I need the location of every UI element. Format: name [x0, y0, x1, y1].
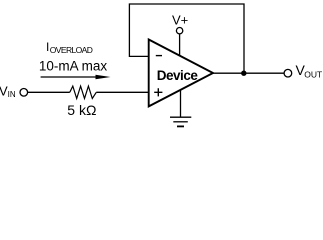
svg-text:OVERLOAD: OVERLOAD — [50, 45, 93, 55]
svg-text:OUT: OUT — [304, 69, 322, 79]
svg-text:5 kΩ: 5 kΩ — [67, 102, 96, 118]
svg-text:IN: IN — [8, 90, 16, 99]
svg-text:Device: Device — [157, 68, 199, 83]
svg-text:10-mA max: 10-mA max — [39, 58, 108, 73]
svg-text:V+: V+ — [172, 12, 188, 27]
